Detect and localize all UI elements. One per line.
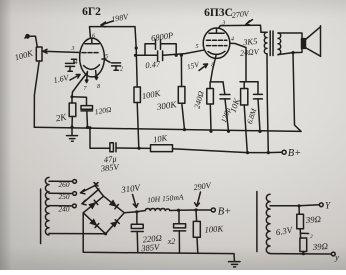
- svg-text:2: 2: [120, 67, 123, 73]
- svg-text:6Г2: 6Г2: [82, 6, 101, 18]
- svg-text:5: 5: [105, 54, 108, 60]
- svg-text:270V: 270V: [231, 9, 250, 20]
- svg-text:5: 5: [196, 44, 199, 50]
- svg-text:39Ω: 39Ω: [304, 214, 321, 225]
- svg-text:B+: B+: [288, 148, 302, 159]
- svg-text:0.47: 0.47: [145, 59, 162, 71]
- svg-text:3: 3: [71, 46, 75, 52]
- svg-text:385V: 385V: [140, 242, 162, 254]
- svg-text:10K: 10K: [152, 132, 169, 144]
- svg-text:260: 260: [59, 180, 70, 189]
- svg-text:6П3С: 6П3С: [204, 7, 233, 19]
- svg-text:B+: B+: [218, 207, 232, 218]
- svg-text:6: 6: [92, 34, 95, 40]
- svg-text:4: 4: [231, 36, 234, 43]
- svg-text:y: y: [334, 252, 339, 262]
- svg-text:x2: x2: [167, 237, 176, 246]
- svg-text:100K: 100K: [204, 223, 225, 234]
- svg-text:24ΩV: 24ΩV: [240, 47, 260, 58]
- svg-text:3: 3: [221, 21, 225, 27]
- svg-text:8: 8: [97, 84, 100, 90]
- svg-text:8: 8: [211, 63, 214, 69]
- svg-text:3K5: 3K5: [242, 36, 258, 47]
- svg-text:240: 240: [59, 204, 70, 213]
- svg-text:4: 4: [75, 59, 78, 66]
- svg-text:250: 250: [59, 192, 70, 201]
- svg-text:39Ω: 39Ω: [311, 241, 328, 252]
